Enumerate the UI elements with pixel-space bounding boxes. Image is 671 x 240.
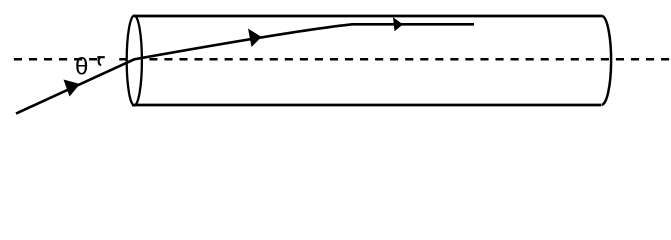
arrowhead on incident ray (64, 80, 81, 97)
angle label theta (75, 54, 88, 81)
arrowhead on horizontal ray inside fiber (393, 17, 403, 31)
fiber axis (dashed center line) (14, 58, 670, 61)
light ray: incident segment, refracted curving segment, horizontal segment (16, 24, 474, 113)
fiber bottom wall (132, 104, 601, 107)
angle arc mark at fiber entrance (97, 57, 105, 65)
fiber top wall (134, 15, 603, 18)
white gap in axis right of angle mark (104, 56, 115, 63)
fiber left end face (ellipse), white fill hides axis dashes (127, 16, 142, 106)
arrowhead on refracted ray inside fiber (248, 29, 262, 48)
fiber right end cap (arc) (602, 16, 612, 105)
svg-text:θ: θ (75, 54, 88, 81)
